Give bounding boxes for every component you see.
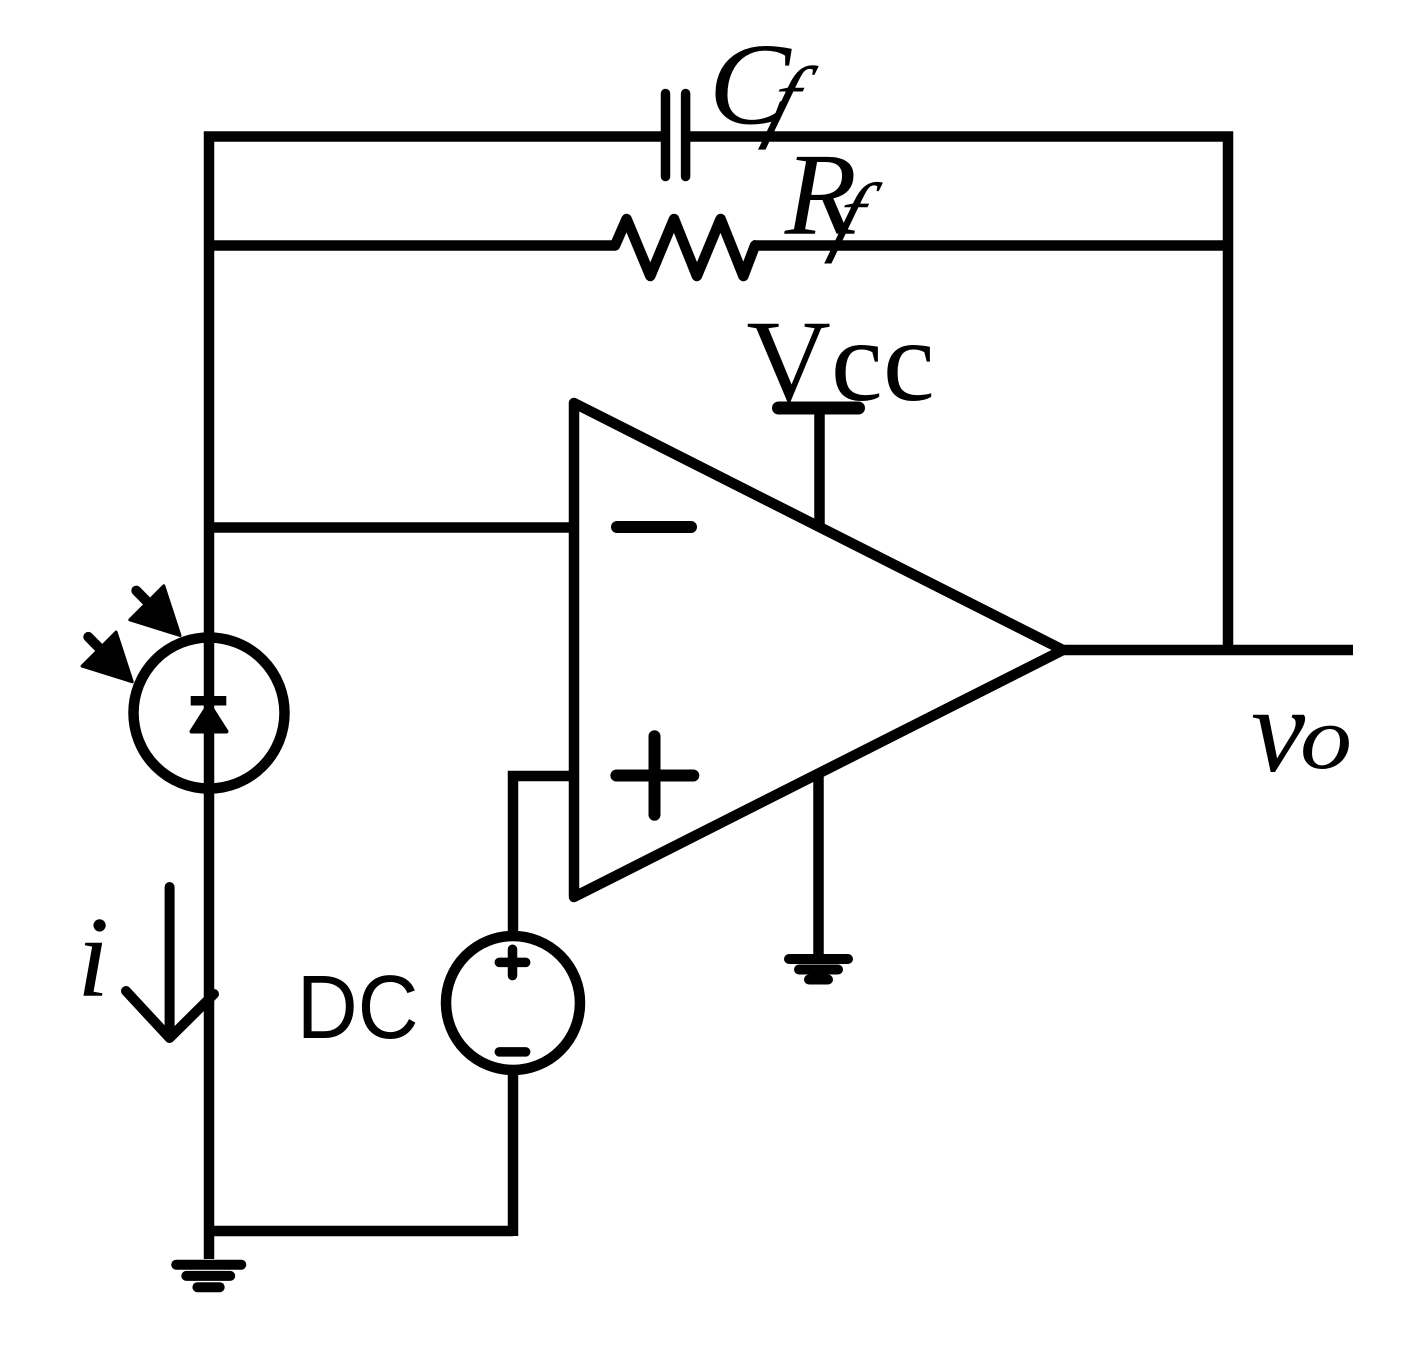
current arrow i head chevron [126,991,214,1038]
photodiode D1 circle [134,638,285,789]
wire: inverting input wire [209,522,574,533]
wire: DC source bottom lead [508,1070,519,1236]
svg-text:o: o [1300,689,1352,788]
ground GND2 (under op-amp) [789,959,848,980]
wire: right feedback rail down to output [1223,132,1234,651]
op-amp U1 triangle [574,403,1063,897]
wire: ground stem under op-amp [813,772,824,956]
svg-text:Vcc: Vcc [746,297,934,426]
current arrow i shaft [165,887,175,1036]
wire: Rf left lead [204,240,615,251]
resistor Rf zigzag body [615,219,755,276]
svg-text:v: v [1251,663,1306,798]
DC source V1 circle [446,936,580,1070]
op-amp U1 non-inverting pin plus sign [616,736,693,815]
wire: Vcc stem to op-amp top edge [814,405,825,527]
wire: left input rail (node at inverting input) [204,132,215,1260]
wire: top feedback wire to Cf left plate [204,131,661,142]
wire: bottom return wire [204,1226,513,1237]
photodiode light arrow 2 [82,632,132,682]
photodiode D1 anode triangle [192,704,227,732]
svg-text:i: i [77,894,109,1022]
wire: Cf right plate to right rail [690,131,1233,142]
wire: non-inverting input wire from DC source [513,776,574,936]
wire: Rf right lead [753,240,1233,251]
svg-text:DC: DC [297,958,419,1058]
photodiode D1 cathode bar [191,696,227,706]
capacitor C_f plates [666,94,686,177]
ground GND1 (bottom left) [176,1265,241,1288]
op-amp U1 inverting pin minus sign [617,521,691,533]
photodiode light arrow 1 [130,586,180,636]
DC source V1 plus sign [499,949,525,975]
DC source V1 minus sign [499,1047,525,1057]
wire: op-amp output to vo [1063,645,1353,656]
power Vcc bar [779,402,859,415]
